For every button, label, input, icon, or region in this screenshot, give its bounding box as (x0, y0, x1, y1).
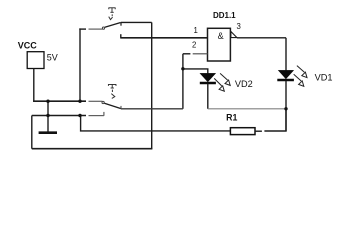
wire top switch stub (89, 28, 103, 30)
switch SA1 actuator chevron (109, 17, 113, 20)
wire pin 2 right (193, 53, 208, 55)
wire top switch common vertical (79, 28, 81, 101)
wire long vertical to bottom rail (151, 22, 153, 148)
svg-text:VCC: VCC (18, 41, 38, 51)
switch SA2 actuator dash (111, 90, 113, 92)
svg-text:R1: R1 (226, 112, 237, 122)
switch SA1 upper contact bar (120, 22, 122, 25)
LED VD1 triangle (279, 70, 294, 78)
svg-text:1: 1 (194, 26, 198, 35)
wire VD1 drop (285, 38, 287, 71)
svg-text:&: & (218, 31, 224, 41)
wire pin 2 left (183, 53, 191, 55)
wire pin 3 (237, 37, 286, 39)
wire rail2 (32, 115, 86, 117)
LED VD1 arrow lower (294, 74, 304, 86)
wire VD1 lower (285, 81, 287, 131)
ground bar (39, 131, 57, 134)
switch SA1 lever (105, 23, 121, 28)
svg-text:DD1.1: DD1.1 (213, 11, 236, 20)
junction dot rail1 ground (46, 100, 49, 103)
LED VD2 arrow lower (214, 78, 224, 91)
wire bottom rail (32, 148, 153, 150)
LED VD2 arrow upper (220, 73, 230, 85)
wire left edge (31, 116, 33, 149)
gate output wedge (231, 32, 237, 38)
junction dot rail2 ground (46, 114, 49, 117)
wire R1 right lead (255, 130, 262, 132)
wire rail2 switch stub (89, 115, 104, 117)
wire VD2 lower (207, 84, 209, 109)
switch SA2 contact bar (120, 106, 122, 109)
wire top contact to long vertical (121, 21, 152, 23)
switch SA1 lower contact bar (pin1 tick) (120, 34, 122, 38)
wire rail2 to R1 line (81, 116, 231, 131)
svg-text:3: 3 (237, 22, 241, 31)
switch SA2 pivot (102, 101, 104, 103)
resistor R1 body (230, 128, 255, 135)
svg-text:VD1: VD1 (315, 73, 333, 83)
switch SA2 lever (104, 103, 121, 108)
LED VD1 arrow upper (297, 66, 307, 78)
power source VCC box (27, 52, 44, 69)
wire VD2 branch (183, 69, 208, 74)
wire rail1 switch stub (89, 100, 103, 102)
wire rail1 (VCC rail) (33, 100, 86, 102)
LED VD2 triangle (200, 73, 215, 81)
LED VD2 cathode bar (200, 82, 216, 85)
wire pin 1 (121, 37, 208, 39)
svg-text:VD2: VD2 (235, 79, 253, 89)
switch SA1 actuator T (109, 8, 116, 13)
wire VCC to rail1 (33, 69, 35, 102)
junction dot VD1 line (284, 107, 287, 110)
switch SA2 actuator chevron (111, 94, 115, 99)
junction dot rail2 R1 (78, 114, 81, 117)
LED VD1 cathode bar (277, 79, 294, 82)
switch SA2 alternate contact tick (103, 112, 105, 116)
gate DD1.1 box (208, 28, 231, 61)
svg-text:2: 2 (192, 41, 196, 50)
wire R1 right to VD1 vertical (264, 109, 286, 131)
wire switch SA2 output (121, 108, 183, 110)
wire junction VD2 to VD1 (208, 108, 286, 110)
switch SA2 actuator T (108, 84, 116, 88)
junction dot rail1 switch (78, 100, 81, 103)
switch SA1 pivot (102, 27, 104, 29)
switch SA1 actuator dash (111, 14, 113, 16)
wire top switch common horizontal (79, 28, 86, 30)
wire ground tap (47, 101, 49, 132)
svg-text:5V: 5V (47, 53, 58, 63)
wire pin 2 vertical (182, 54, 184, 109)
junction dot VD2 branch (181, 67, 184, 70)
